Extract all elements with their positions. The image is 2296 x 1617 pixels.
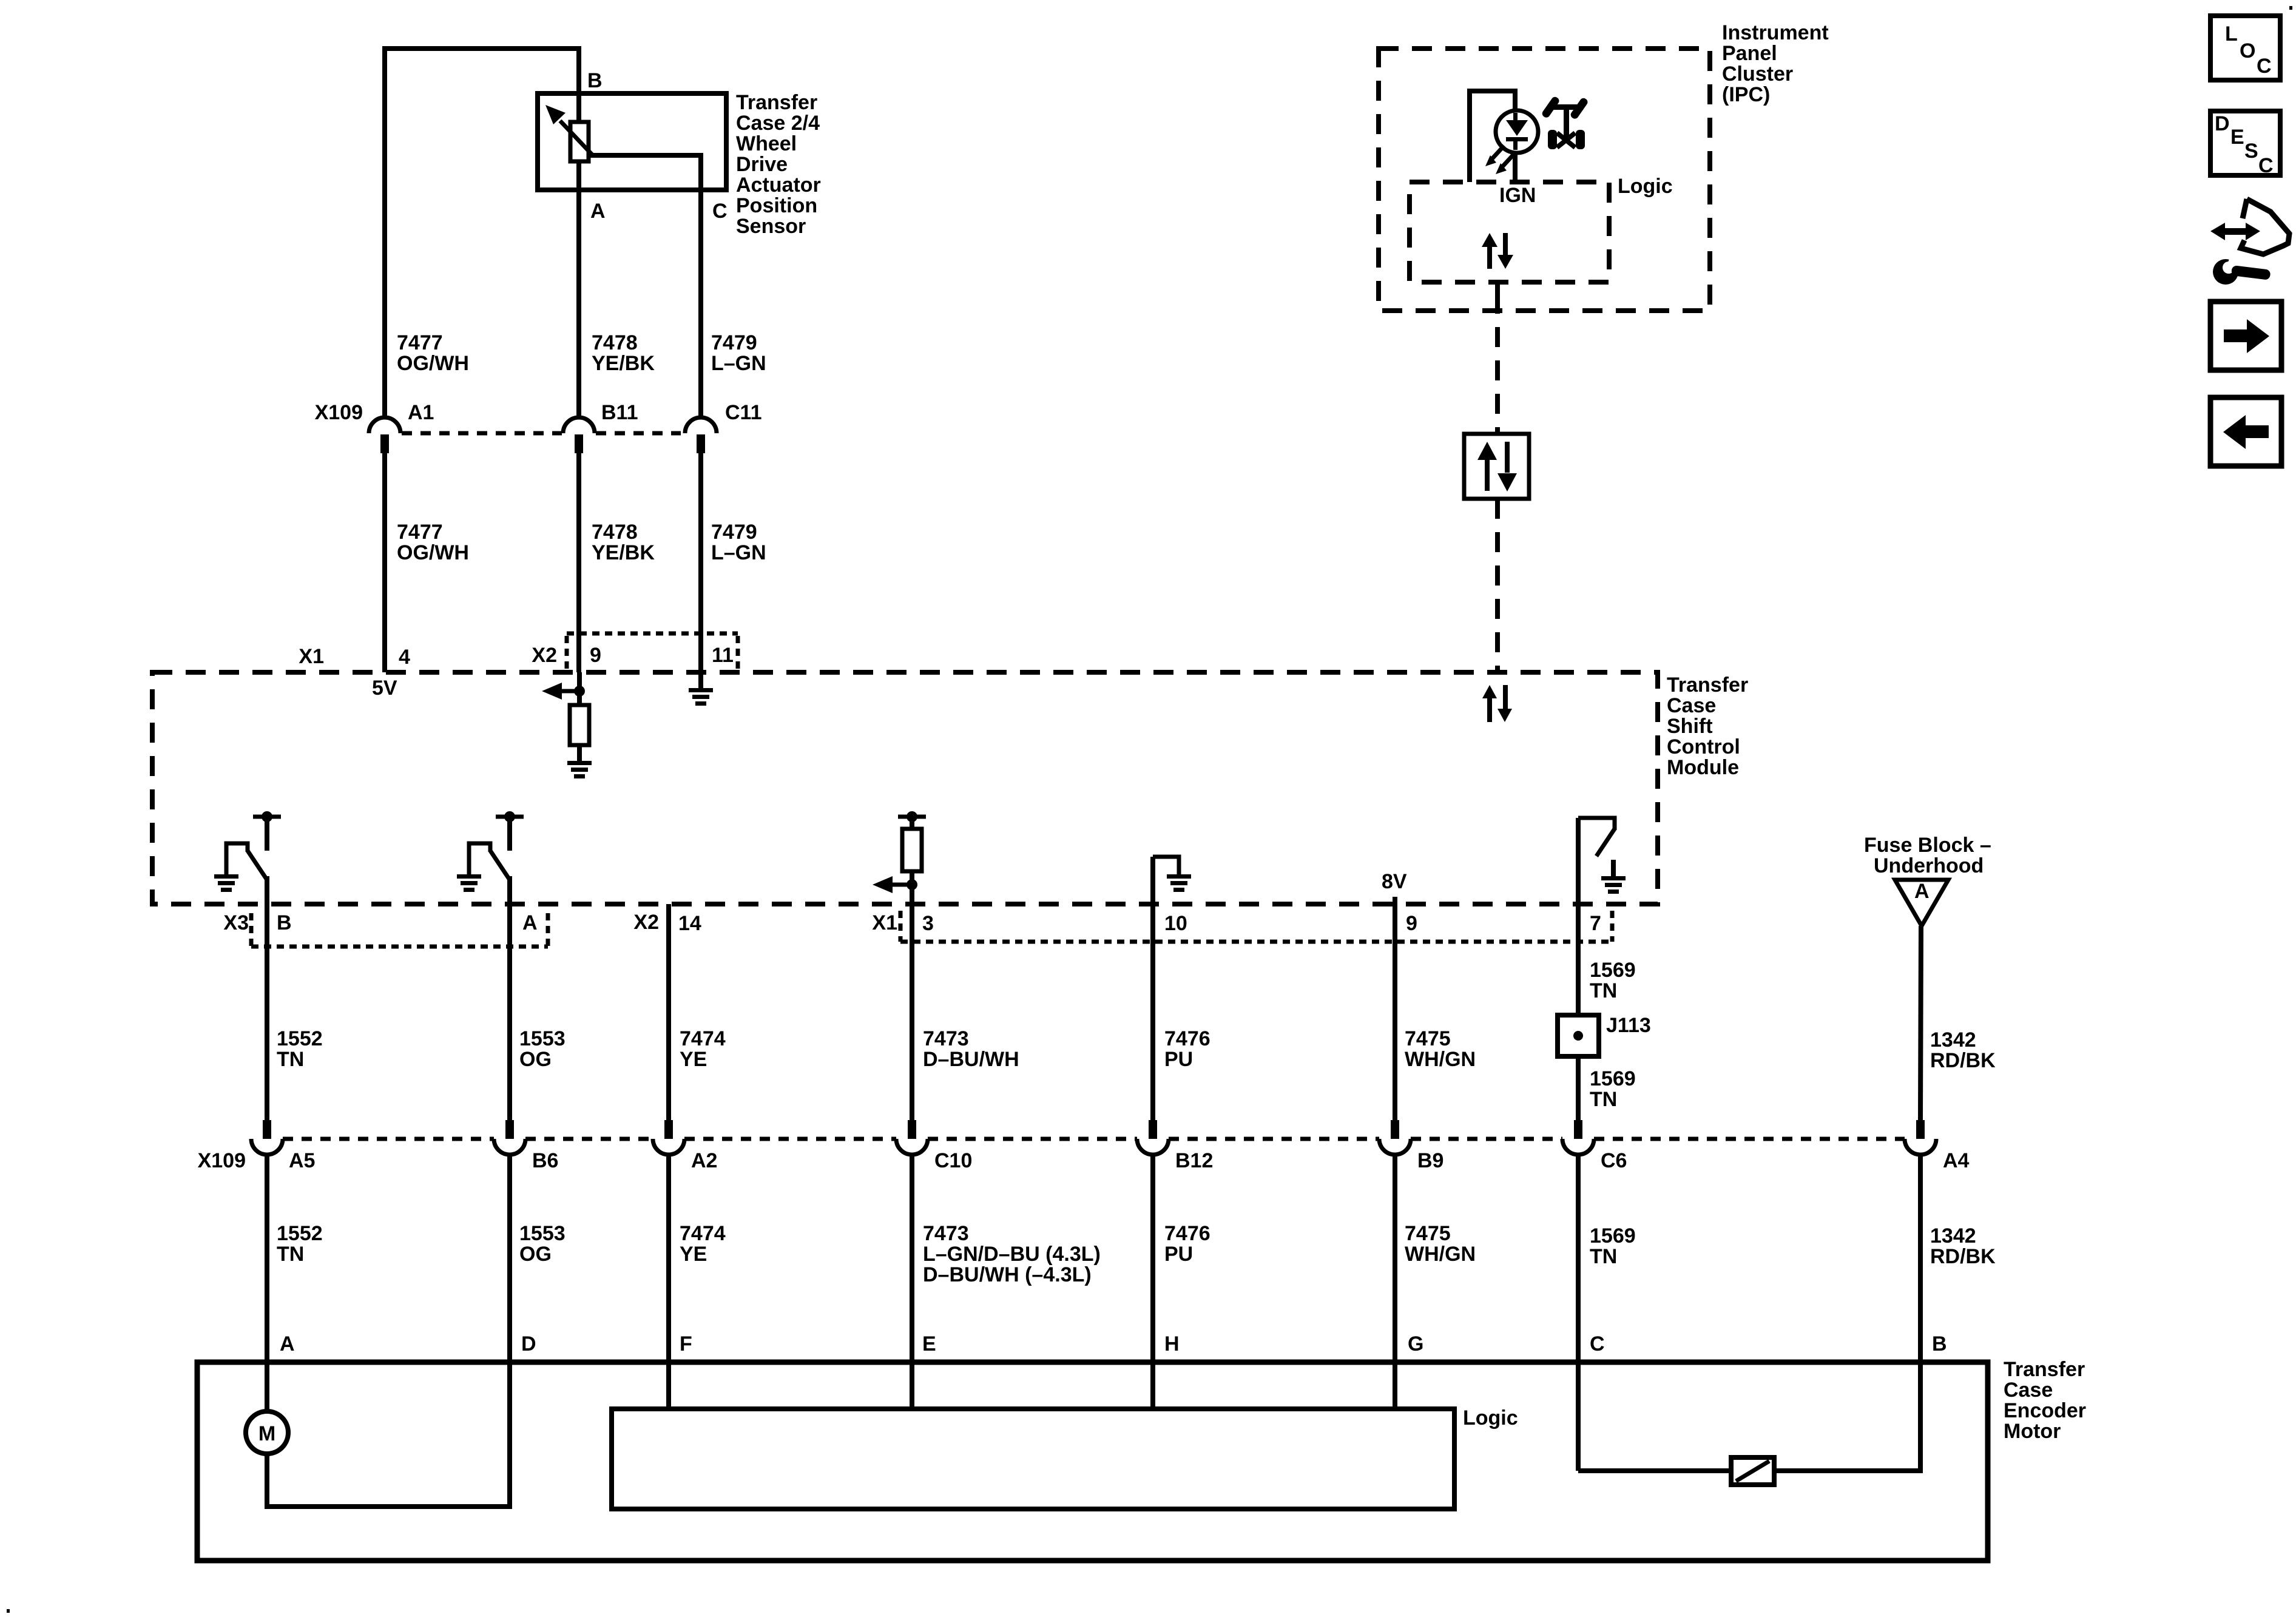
svg-text:7473: 7473 bbox=[923, 1027, 969, 1050]
label wire 1552 TN upper bbox=[277, 1027, 323, 1071]
svg-text:1569: 1569 bbox=[1590, 959, 1636, 982]
label wire 1342 RD/BK lower bbox=[1930, 1224, 1996, 1268]
IPC logic up/down arrows bbox=[1482, 233, 1513, 269]
svg-text:7473: 7473 bbox=[923, 1222, 969, 1245]
indicator LED circle bbox=[1496, 110, 1538, 153]
svg-text:X2: X2 bbox=[532, 644, 557, 667]
label X109 row2 bbox=[198, 1149, 246, 1172]
svg-text:C: C bbox=[2258, 154, 2274, 177]
label Logic (encoder) bbox=[1463, 1406, 1518, 1430]
svg-text:C6: C6 bbox=[1601, 1149, 1627, 1172]
connector X109 pin B6 bbox=[494, 1120, 525, 1155]
svg-text:C: C bbox=[1590, 1332, 1605, 1355]
svg-text:C: C bbox=[2257, 55, 2272, 78]
svg-text:7474: 7474 bbox=[680, 1027, 726, 1050]
svg-text:G: G bbox=[1408, 1332, 1423, 1355]
svg-text:A: A bbox=[522, 911, 538, 934]
wire top horizontal 5V feed bbox=[382, 46, 581, 51]
svg-text:OG: OG bbox=[519, 1243, 552, 1266]
label C6 bbox=[1601, 1149, 1627, 1172]
svg-text:X109: X109 bbox=[315, 401, 363, 424]
label Logic (IPC) bbox=[1618, 175, 1673, 198]
wire pin B below switch bbox=[265, 876, 269, 1120]
svg-text:B: B bbox=[587, 69, 603, 92]
label A5 bbox=[289, 1149, 315, 1172]
svg-text:1552: 1552 bbox=[277, 1222, 323, 1245]
label wire 7475 WH/GN lower bbox=[1405, 1222, 1476, 1266]
svg-text:A: A bbox=[280, 1332, 295, 1355]
label X3 bbox=[223, 911, 249, 934]
svg-text:X3: X3 bbox=[223, 911, 249, 934]
wiper output wire to pin C bbox=[589, 153, 701, 419]
svg-text:Sensor: Sensor bbox=[736, 215, 806, 238]
encoder sensor element (box with diagonal) bbox=[1731, 1457, 1774, 1485]
svg-text:8V: 8V bbox=[1382, 870, 1407, 893]
serial box up/down arrows bbox=[1477, 442, 1517, 491]
svg-text:D–BU/WH (–4.3L): D–BU/WH (–4.3L) bbox=[923, 1263, 1092, 1286]
label 8V bbox=[1382, 870, 1407, 893]
svg-text:Position: Position bbox=[736, 194, 817, 217]
label motor pin C bbox=[1590, 1332, 1605, 1355]
svg-text:L: L bbox=[2225, 22, 2238, 46]
svg-text:1569: 1569 bbox=[1590, 1067, 1636, 1090]
label motor pin B bbox=[1932, 1332, 1947, 1355]
svg-text:H: H bbox=[1164, 1332, 1180, 1355]
label A1 bbox=[408, 401, 434, 424]
connector X109 pin A2 bbox=[653, 1120, 684, 1155]
label motor pin F bbox=[680, 1332, 692, 1355]
svg-text:Logic: Logic bbox=[1463, 1406, 1518, 1430]
svg-text:5V: 5V bbox=[372, 677, 397, 700]
svg-text:D: D bbox=[521, 1332, 536, 1355]
label motor pin G bbox=[1408, 1332, 1423, 1355]
svg-text:YE/BK: YE/BK bbox=[592, 541, 655, 564]
sensor box: Transfer Case 2/4 Wheel Drive Actuator Position Sensor bbox=[538, 93, 726, 190]
label wire 7477 OG/WH lower bbox=[397, 521, 469, 564]
svg-text:1553: 1553 bbox=[519, 1027, 566, 1050]
svg-text:(IPC): (IPC) bbox=[1722, 83, 1770, 106]
svg-text:Motor: Motor bbox=[2004, 1420, 2061, 1443]
wire pin 9 8V stub above edge bbox=[1393, 897, 1397, 906]
svg-text:A: A bbox=[1914, 880, 1930, 903]
label wire 7478 YE/BK upper bbox=[592, 331, 655, 375]
label X2 (pin 14) bbox=[633, 911, 659, 934]
svg-text:1569: 1569 bbox=[1590, 1224, 1636, 1247]
svg-text:TN: TN bbox=[1590, 979, 1617, 1002]
svg-text:RD/BK: RD/BK bbox=[1930, 1049, 1996, 1072]
fuse block triangle terminal A bbox=[1895, 880, 1948, 926]
label C11 bbox=[725, 401, 762, 424]
pin 9 internal pull-down resistor bbox=[570, 705, 589, 745]
potentiometer wiper arrow bbox=[545, 105, 593, 155]
label 14 bbox=[678, 912, 701, 935]
label C10 bbox=[934, 1149, 972, 1172]
svg-text:1553: 1553 bbox=[519, 1222, 566, 1245]
svg-text:A: A bbox=[590, 200, 606, 223]
svg-text:7474: 7474 bbox=[680, 1222, 726, 1245]
svg-text:RD/BK: RD/BK bbox=[1930, 1245, 1996, 1268]
label B11 bbox=[601, 401, 638, 424]
label wire 7476 PU lower bbox=[1164, 1222, 1210, 1266]
label 10 bbox=[1164, 912, 1187, 935]
label DESC letters bbox=[2215, 112, 2274, 177]
svg-text:B: B bbox=[1932, 1332, 1947, 1355]
serial data connector box bbox=[1464, 434, 1529, 499]
svg-text:1342: 1342 bbox=[1930, 1028, 1976, 1052]
motor M circle bbox=[246, 1362, 288, 1507]
label Fuse Block - Underhood bbox=[1864, 834, 1991, 877]
svg-text:Transfer: Transfer bbox=[736, 91, 817, 114]
label LOC letters bbox=[2225, 22, 2272, 78]
svg-text:D: D bbox=[2215, 112, 2230, 135]
SECTION: side icons bbox=[2210, 16, 2289, 466]
label pin A bbox=[590, 200, 606, 223]
label wire 1569 TN above J113 bbox=[1590, 959, 1636, 1002]
wire 1553 OG lower bbox=[507, 1155, 512, 1507]
svg-text:1552: 1552 bbox=[277, 1027, 323, 1050]
svg-text:B9: B9 bbox=[1417, 1149, 1443, 1172]
wire 1342 RD/BK upper bbox=[1920, 926, 1921, 1120]
svg-text:Shift: Shift bbox=[1667, 715, 1713, 738]
adjust icon hand outline bbox=[2241, 199, 2289, 254]
label J113 bbox=[1606, 1014, 1651, 1037]
label wire 7475 WH/GN upper bbox=[1405, 1027, 1476, 1071]
svg-text:OG/WH: OG/WH bbox=[397, 352, 469, 375]
connector X3 dotted bracket below module bbox=[251, 913, 548, 947]
svg-text:YE/BK: YE/BK bbox=[592, 352, 655, 375]
label Transfer Case Encoder Motor bbox=[2004, 1358, 2086, 1443]
motor loop wire A to D bbox=[265, 1504, 512, 1509]
label X1 (bottom) bbox=[872, 911, 897, 934]
svg-text:OG/WH: OG/WH bbox=[397, 541, 469, 564]
wire 1342 RD/BK lower bbox=[1918, 1155, 1923, 1471]
svg-text:7: 7 bbox=[1590, 912, 1601, 935]
label A2 bbox=[691, 1149, 717, 1172]
svg-text:Underhood: Underhood bbox=[1874, 854, 1984, 877]
svg-text:Logic: Logic bbox=[1618, 175, 1673, 198]
svg-text:Control: Control bbox=[1667, 735, 1740, 758]
connector X109 pin B9 bbox=[1379, 1120, 1411, 1155]
pin 10 internal ground bracket bbox=[1153, 857, 1191, 904]
svg-text:Case 2/4: Case 2/4 bbox=[736, 112, 820, 135]
connector X109 pin B12 bbox=[1137, 1120, 1169, 1155]
wire 7477 OG/WH vertical lower bbox=[382, 453, 387, 672]
dashed serial data wire upper bbox=[1495, 282, 1500, 434]
switch to ground (pin A) bbox=[457, 811, 524, 892]
svg-text:C11: C11 bbox=[725, 401, 762, 424]
svg-text:TN: TN bbox=[1590, 1245, 1617, 1268]
label wire 7479 L-GN lower bbox=[711, 521, 766, 564]
label B6 bbox=[532, 1149, 558, 1172]
label motor pin E bbox=[922, 1332, 936, 1355]
svg-text:Case: Case bbox=[1667, 694, 1716, 717]
label B (X3 pin) bbox=[277, 911, 292, 934]
encoder logic box bbox=[612, 1409, 1454, 1509]
svg-text:7477: 7477 bbox=[397, 331, 443, 354]
label 3 bbox=[922, 912, 934, 935]
svg-text:TN: TN bbox=[277, 1048, 304, 1071]
svg-text:X1: X1 bbox=[299, 645, 324, 668]
svg-text:B: B bbox=[277, 911, 292, 934]
svg-text:TN: TN bbox=[277, 1243, 304, 1266]
wire 1569 TN lower bbox=[1576, 1155, 1581, 1471]
DESC nav button bbox=[2210, 111, 2280, 175]
wire element to B bbox=[1774, 1468, 1923, 1473]
wire 1552 TN lower bbox=[265, 1155, 269, 1365]
back nav button bbox=[2210, 397, 2281, 466]
label 9 (bottom) bbox=[1406, 912, 1417, 935]
svg-text:J113: J113 bbox=[1606, 1014, 1651, 1037]
svg-text:A1: A1 bbox=[408, 401, 434, 424]
wire 7473 lower bbox=[910, 1155, 914, 1409]
label A4 bbox=[1943, 1149, 1970, 1172]
connector X109 pin A1 bbox=[369, 417, 400, 453]
svg-text:7476: 7476 bbox=[1164, 1027, 1210, 1050]
label X2 (top) bbox=[532, 644, 557, 667]
label IGN bbox=[1499, 184, 1536, 207]
svg-text:OG: OG bbox=[519, 1048, 552, 1071]
label 11 bbox=[712, 644, 734, 667]
label wire 1553 OG upper bbox=[519, 1027, 566, 1071]
svg-text:Fuse Block –: Fuse Block – bbox=[1864, 834, 1991, 857]
connector X109 dashed body line row 1 bbox=[402, 431, 681, 436]
svg-text:Case: Case bbox=[2004, 1379, 2053, 1402]
wire 7479 L-GN vertical lower bbox=[698, 453, 703, 672]
Instrument Panel Cluster dashed box bbox=[1379, 49, 1710, 311]
wire pin 9 8V bbox=[1393, 904, 1397, 1120]
label B12 bbox=[1175, 1149, 1213, 1172]
svg-text:7475: 7475 bbox=[1405, 1222, 1451, 1245]
Transfer Case Shift Control Module dashed box bbox=[152, 672, 1658, 904]
label B9 bbox=[1417, 1149, 1443, 1172]
wire pin A below switch bbox=[507, 876, 512, 1120]
svg-text:YE: YE bbox=[680, 1048, 707, 1071]
label motor pin H bbox=[1164, 1332, 1180, 1355]
svg-text:7478: 7478 bbox=[592, 521, 638, 544]
wire pin 3 bbox=[910, 904, 914, 1120]
svg-text:PU: PU bbox=[1164, 1048, 1193, 1071]
indicator lamp feed wire loop bbox=[1470, 91, 1515, 182]
dashed serial data wire lower bbox=[1495, 499, 1500, 670]
svg-text:B11: B11 bbox=[601, 401, 638, 424]
svg-text:Module: Module bbox=[1667, 756, 1739, 779]
svg-text:7476: 7476 bbox=[1164, 1222, 1210, 1245]
svg-text:9: 9 bbox=[1406, 912, 1417, 935]
label wire 7478 YE/BK lower bbox=[592, 521, 655, 564]
wire pin 7 upper bbox=[1576, 904, 1581, 1015]
svg-text:TN: TN bbox=[1590, 1088, 1617, 1111]
svg-text:B12: B12 bbox=[1175, 1149, 1213, 1172]
label wire 7473 L-GN/D-BU lower bbox=[923, 1222, 1101, 1286]
forward arrow bbox=[2224, 319, 2269, 353]
svg-text:E: E bbox=[2230, 126, 2244, 149]
svg-text:Wheel: Wheel bbox=[736, 132, 797, 155]
svg-text:Transfer: Transfer bbox=[1667, 673, 1748, 697]
svg-text:A4: A4 bbox=[1943, 1149, 1970, 1172]
wire 7477 OG/WH vertical upper bbox=[382, 46, 387, 419]
pin 11 internal ground bbox=[689, 672, 713, 706]
svg-text:10: 10 bbox=[1164, 912, 1187, 935]
label wire 1342 RD/BK upper bbox=[1930, 1028, 1996, 1072]
serial data up/down arrows inside module bbox=[1482, 685, 1512, 722]
label pin C bbox=[712, 200, 728, 223]
svg-text:Encoder: Encoder bbox=[2004, 1399, 2086, 1422]
svg-text:9: 9 bbox=[590, 644, 601, 667]
svg-text:IGN: IGN bbox=[1499, 184, 1536, 207]
pin 3 internal signal arrow bbox=[873, 871, 917, 904]
label M bbox=[258, 1422, 275, 1445]
label sensor name bbox=[736, 91, 821, 238]
label wire 7474 YE lower bbox=[680, 1222, 726, 1266]
svg-text:7478: 7478 bbox=[592, 331, 638, 354]
label wire 7476 PU upper bbox=[1164, 1027, 1210, 1071]
label motor pin D bbox=[521, 1332, 536, 1355]
SECTION: module bbox=[152, 633, 1748, 1120]
svg-text:11: 11 bbox=[712, 644, 734, 667]
pin 9 internal: junction dot and signal arrow bbox=[542, 672, 585, 705]
svg-text:E: E bbox=[922, 1332, 936, 1355]
svg-text:Transfer: Transfer bbox=[2004, 1358, 2085, 1381]
svg-text:S: S bbox=[2244, 140, 2258, 163]
svg-text:F: F bbox=[680, 1332, 692, 1355]
pin 3 internal resistor with junction dots bbox=[898, 811, 926, 829]
back arrow bbox=[2223, 415, 2269, 449]
switch to ground (pin 7) bbox=[1578, 818, 1626, 904]
label motor pin A bbox=[280, 1332, 295, 1355]
splice J113 bbox=[1558, 1015, 1599, 1056]
label 9 (top) bbox=[590, 644, 601, 667]
svg-text:7479: 7479 bbox=[711, 331, 757, 354]
svg-text:4: 4 bbox=[399, 646, 410, 669]
wire 7478 YE/BK vertical upper (pin B) bbox=[576, 46, 581, 419]
adjust icon wrench bbox=[2213, 252, 2271, 285]
svg-text:WH/GN: WH/GN bbox=[1405, 1048, 1476, 1071]
wire pin 14 bbox=[666, 904, 671, 1120]
SECTION: ipc bbox=[1379, 21, 1829, 670]
connector X2 dotted bracket at module top bbox=[567, 633, 738, 670]
connector X109 pin C10 bbox=[896, 1120, 928, 1155]
svg-text:O: O bbox=[2240, 39, 2255, 62]
IPC logic dashed box bbox=[1410, 182, 1609, 282]
svg-text:X109: X109 bbox=[198, 1149, 246, 1172]
connector X109 pin C6 bbox=[1562, 1120, 1594, 1155]
connector X1 dotted bracket below module bbox=[900, 911, 1612, 942]
svg-text:L–GN: L–GN bbox=[711, 541, 766, 564]
svg-text:C10: C10 bbox=[934, 1149, 972, 1172]
wire 7474 YE lower bbox=[666, 1155, 671, 1409]
svg-text:Actuator: Actuator bbox=[736, 174, 821, 197]
svg-text:M: M bbox=[258, 1422, 275, 1445]
connector X109 pin A5 bbox=[251, 1120, 283, 1155]
svg-text:WH/GN: WH/GN bbox=[1405, 1243, 1476, 1266]
svg-text:X2: X2 bbox=[633, 911, 659, 934]
label wire 1552 TN lower bbox=[277, 1222, 323, 1266]
connector X109 dashed body line row 2 bbox=[283, 1137, 1905, 1141]
4WD drivetrain icon bbox=[1541, 95, 1589, 149]
pin 9 internal ground bbox=[567, 745, 592, 778]
label wire 1553 OG lower bbox=[519, 1222, 566, 1266]
adjust icon double arrow bbox=[2210, 223, 2260, 240]
Transfer Case Encoder Motor box bbox=[197, 1362, 1988, 1561]
connector X109 pin A4 bbox=[1905, 1120, 1936, 1155]
svg-text:A2: A2 bbox=[691, 1149, 717, 1172]
label pin B bbox=[587, 69, 603, 92]
label A (fuse terminal) bbox=[1914, 880, 1930, 903]
switch to ground (pin B) bbox=[214, 811, 281, 892]
label wire 7474 YE upper bbox=[680, 1027, 726, 1071]
potentiometer resistor element bbox=[570, 122, 589, 161]
svg-text:C: C bbox=[712, 200, 728, 223]
label wire 7477 OG/WH upper bbox=[397, 331, 469, 375]
svg-text:14: 14 bbox=[678, 912, 701, 935]
svg-text:1342: 1342 bbox=[1930, 1224, 1976, 1247]
wire pin 10 bbox=[1150, 904, 1155, 1120]
SECTION: top-left position sensor circuit bbox=[315, 46, 821, 672]
svg-text:PU: PU bbox=[1164, 1243, 1193, 1266]
wire pin 7 lower (1569 TN) bbox=[1576, 1056, 1581, 1120]
svg-text:X1: X1 bbox=[872, 911, 897, 934]
connector X109 pin C11 bbox=[685, 417, 717, 453]
label X109 row1 bbox=[315, 401, 363, 424]
label Transfer Case Shift Control Module bbox=[1667, 673, 1748, 779]
label wire 1569 TN below J113 bbox=[1590, 1067, 1636, 1111]
svg-text:Cluster: Cluster bbox=[1722, 62, 1793, 86]
svg-text:L–GN: L–GN bbox=[711, 352, 766, 375]
svg-text:Drive: Drive bbox=[736, 153, 788, 176]
label Instrument Panel Cluster (IPC) bbox=[1722, 21, 1829, 106]
label wire 1569 TN lower2 bbox=[1590, 1224, 1636, 1268]
label wire 7479 L-GN upper bbox=[711, 331, 766, 375]
svg-text:D–BU/WH: D–BU/WH bbox=[923, 1048, 1019, 1071]
LED diode symbol bbox=[1506, 113, 1528, 150]
LED emission arrows bbox=[1485, 146, 1514, 174]
svg-text:B6: B6 bbox=[532, 1149, 558, 1172]
svg-text:A5: A5 bbox=[289, 1149, 315, 1172]
label A (X3 pin) bbox=[522, 911, 538, 934]
svg-text:7475: 7475 bbox=[1405, 1027, 1451, 1050]
svg-text:3: 3 bbox=[922, 912, 934, 935]
label 7 bbox=[1590, 912, 1601, 935]
forward nav button bbox=[2210, 302, 2281, 370]
svg-text:Panel: Panel bbox=[1722, 42, 1777, 65]
svg-text:L–GN/D–BU (4.3L): L–GN/D–BU (4.3L) bbox=[923, 1243, 1101, 1266]
wire 7475 WH/GN lower bbox=[1393, 1155, 1397, 1409]
label wire 7473 D-BU/WH upper bbox=[923, 1027, 1019, 1071]
connector X109 pin B11 bbox=[563, 417, 595, 453]
label X1 (pin 4) bbox=[299, 645, 324, 668]
svg-text:7479: 7479 bbox=[711, 521, 757, 544]
svg-text:Instrument: Instrument bbox=[1722, 21, 1829, 44]
label 5V bbox=[372, 677, 397, 700]
wire 7478 YE/BK vertical lower bbox=[576, 453, 581, 672]
label 4 bbox=[399, 646, 410, 669]
wire 7476 PU lower bbox=[1150, 1155, 1155, 1409]
LOC nav button bbox=[2210, 16, 2280, 80]
svg-text:YE: YE bbox=[680, 1243, 707, 1266]
svg-text:7477: 7477 bbox=[397, 521, 443, 544]
wire C to encoder element bbox=[1578, 1468, 1731, 1473]
